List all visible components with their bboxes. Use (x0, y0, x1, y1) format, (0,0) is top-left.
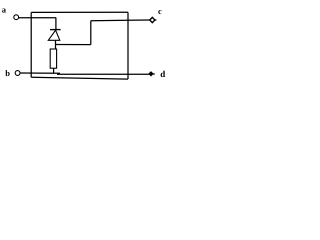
svg-text:c: c (158, 6, 162, 16)
diode D1 triangle (48, 30, 60, 40)
resistor R1 bottom lead (53, 68, 55, 73)
wire resistor node to terminal d (57, 73, 149, 75)
terminal c diamond (150, 17, 155, 22)
wire a to corner (19, 17, 57, 19)
diode D1 bottom lead (55, 40, 57, 49)
diode D1 top lead (55, 18, 57, 30)
terminal d diamond (149, 72, 153, 76)
network box left edge (30, 12, 32, 77)
network box bottom edge (31, 77, 128, 79)
stub right of terminal d (153, 73, 155, 75)
wire to terminal c (91, 19, 150, 22)
diode D1 cathode bar (50, 29, 61, 31)
wire b to resistor node (20, 72, 60, 74)
network box right edge (127, 12, 129, 79)
resistor R1 body (50, 49, 56, 68)
svg-text:a: a (2, 5, 7, 15)
stub right of terminal c (155, 19, 157, 21)
network box top edge (31, 11, 128, 13)
svg-text:b: b (5, 68, 10, 78)
svg-text:d: d (160, 69, 165, 79)
terminal a (14, 15, 19, 20)
wire right vertical riser (90, 21, 92, 45)
terminal b (15, 71, 20, 76)
wire junction to right vertical (56, 44, 91, 46)
